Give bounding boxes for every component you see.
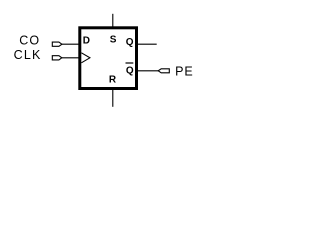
wire S input (top vertical): [112, 14, 114, 28]
svg-text:PE: PE: [175, 64, 193, 78]
overline of Qbar: [126, 62, 134, 64]
svg-text:CLK: CLK: [14, 48, 42, 62]
wire Qbar output to PE: [136, 70, 158, 72]
port symbol PE (output pentagon): [158, 69, 169, 73]
port symbol CO (input pentagon): [52, 42, 62, 46]
wire CO to D input: [62, 43, 80, 45]
svg-text:D: D: [83, 36, 90, 47]
svg-text:Q: Q: [126, 37, 134, 48]
wire CLK to clock input: [62, 57, 80, 59]
svg-text:CO: CO: [19, 34, 40, 48]
svg-text:Q: Q: [126, 66, 134, 77]
svg-text:S: S: [110, 35, 117, 46]
wire R input (bottom vertical): [112, 90, 114, 107]
flip-flop U1 body: [80, 28, 137, 89]
port symbol CLK (input pentagon): [52, 56, 62, 60]
wire Q output stub: [136, 43, 157, 45]
svg-text:R: R: [109, 75, 117, 86]
clock input triangle on U1: [81, 53, 90, 63]
